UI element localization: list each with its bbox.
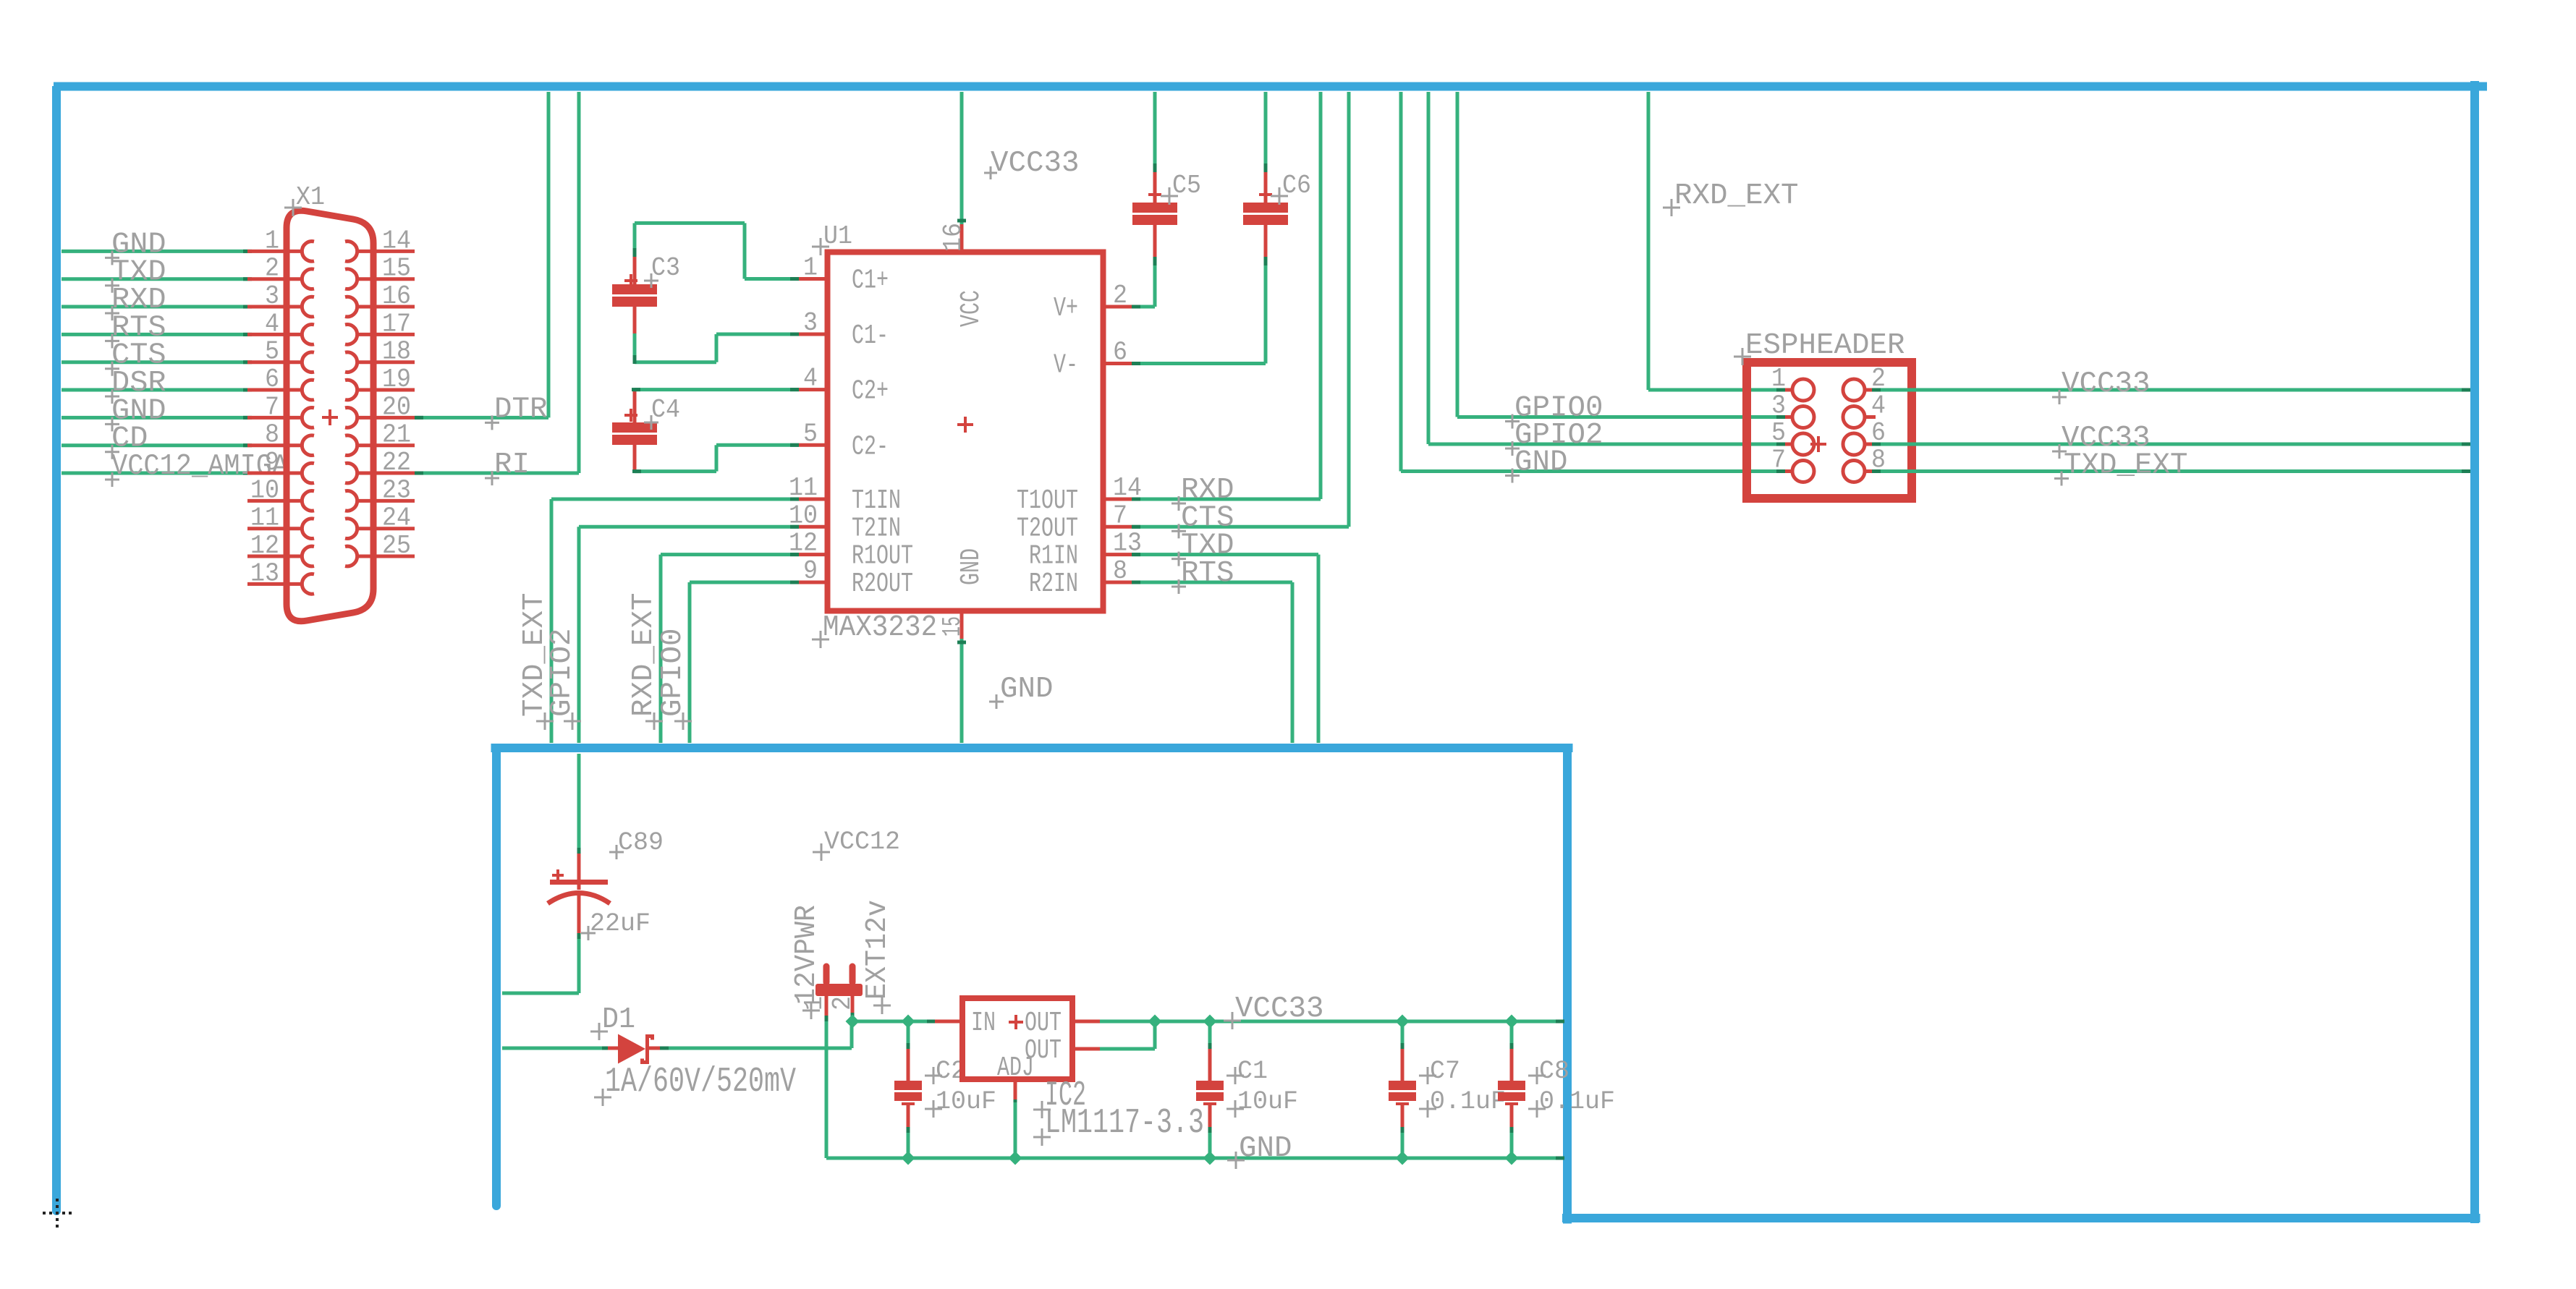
svg-text:23: 23 xyxy=(382,475,411,505)
U1 pin numbers xyxy=(789,223,1142,637)
wire GPIO0 from U1 R2OUT xyxy=(690,581,799,744)
svg-text:C3: C3 xyxy=(651,253,680,283)
wire VCC12 bus to C89 xyxy=(577,754,581,856)
svg-text:1: 1 xyxy=(265,226,279,255)
svg-text:24: 24 xyxy=(382,503,411,533)
svg-text:12: 12 xyxy=(250,531,279,561)
wire RTS xyxy=(1132,581,1292,744)
label LM1117-3.3 xyxy=(1033,1104,1204,1146)
svg-text:GND: GND xyxy=(1000,673,1054,706)
svg-text:5: 5 xyxy=(803,419,818,448)
wire C6 bottom to U1 pin6 V- xyxy=(1132,257,1268,365)
wire RXD_EXT from U1 R1OUT xyxy=(661,553,799,743)
label D1 xyxy=(590,1003,635,1040)
capacitor C5 xyxy=(1132,169,1177,259)
svg-text:GPIO0: GPIO0 xyxy=(1514,392,1603,425)
svg-text:11: 11 xyxy=(250,503,279,533)
net name GND xyxy=(105,228,166,265)
wire ADJ to GND rail xyxy=(1014,1099,1017,1158)
wire DSR X1 pin 6 xyxy=(62,388,252,392)
label IC2 xyxy=(1033,1076,1086,1118)
svg-text:T1IN: T1IN xyxy=(852,485,901,516)
net name GPIO0 (ESP) xyxy=(1505,392,1603,429)
svg-text:6: 6 xyxy=(265,365,279,394)
capacitor C6 xyxy=(1243,169,1288,259)
wire RXD X1 pin 3 xyxy=(62,305,252,309)
net name RXD xyxy=(1172,474,1234,511)
svg-text:25: 25 xyxy=(382,531,411,561)
svg-text:16: 16 xyxy=(939,223,968,252)
svg-text:VCC12: VCC12 xyxy=(824,828,900,856)
svg-text:20: 20 xyxy=(382,392,411,422)
svg-text:MAX3232: MAX3232 xyxy=(823,611,937,644)
wire CTS xyxy=(1132,92,1349,529)
wire C1 top xyxy=(1208,1021,1212,1052)
label C4 xyxy=(644,395,680,430)
net name CTS xyxy=(105,339,166,376)
svg-text:GPIO0: GPIO0 xyxy=(656,629,690,718)
wire C7 bottom xyxy=(1401,1127,1404,1158)
wire GND to ESP pin7 xyxy=(1401,92,1785,473)
net name GND rail xyxy=(1227,1132,1292,1169)
svg-text:GND: GND xyxy=(1239,1132,1292,1165)
label ESPHEADER xyxy=(1734,329,1905,365)
junction 12VPWR pin2 xyxy=(846,1013,860,1029)
bus inner box left segment xyxy=(492,748,501,1210)
wire U1 VCC pin16 xyxy=(957,92,966,224)
svg-text:R1OUT: R1OUT xyxy=(852,541,913,572)
svg-text:2: 2 xyxy=(1113,281,1127,310)
svg-text:3: 3 xyxy=(1771,391,1786,421)
svg-text:1: 1 xyxy=(800,996,829,1011)
net name TXD xyxy=(105,256,166,293)
wire VCC33 from ESP pin6 xyxy=(1872,443,2470,446)
junction C7 bottom xyxy=(1396,1152,1410,1165)
wire D1 cathode to 12VPWR junction xyxy=(660,1021,852,1050)
U1 internal pin names xyxy=(852,265,1078,600)
wire GPIO2 from U1 T2IN xyxy=(579,525,799,743)
svg-text:3: 3 xyxy=(803,308,818,338)
regulator IC2 body xyxy=(962,998,1072,1079)
wire C7 top xyxy=(1401,1021,1404,1052)
net name TXD_EXT (ESP pin8) xyxy=(2054,449,2188,486)
net name GND xyxy=(105,394,166,431)
connector 12VPWR pins xyxy=(815,966,863,1018)
svg-text:15: 15 xyxy=(938,616,967,637)
wire RTS X1 pin 4 xyxy=(62,333,252,336)
svg-text:GPIO2: GPIO2 xyxy=(546,629,579,718)
svg-text:6: 6 xyxy=(1113,338,1127,367)
wire C3 bottom to U1 pin3 C1- xyxy=(633,333,800,365)
svg-text:VCC33: VCC33 xyxy=(991,147,1080,180)
capacitor C7 xyxy=(1389,1049,1416,1130)
svg-text:22: 22 xyxy=(382,448,411,477)
svg-text:16: 16 xyxy=(382,281,411,311)
IC U1 MAX3232 body xyxy=(828,252,1103,611)
svg-text:18: 18 xyxy=(382,337,411,367)
svg-text:C7: C7 xyxy=(1430,1057,1460,1086)
IC2 internal pin names xyxy=(971,1008,1062,1084)
label C6 xyxy=(1271,171,1311,205)
svg-text:10uF: 10uF xyxy=(936,1087,996,1116)
wire C1 bottom xyxy=(1208,1127,1212,1158)
svg-text:14: 14 xyxy=(382,226,411,255)
svg-text:8: 8 xyxy=(265,420,279,450)
IC2 pin stub IN xyxy=(935,1020,962,1024)
svg-text:12VPWR: 12VPWR xyxy=(790,905,823,1005)
capacitor C2 xyxy=(894,1049,922,1130)
wire GND X1 pin 7 xyxy=(62,416,252,420)
capacitor C89 xyxy=(548,854,610,936)
wire C5 top to bus xyxy=(1153,92,1157,172)
X1 pin numbers xyxy=(250,226,411,588)
net name GND (ESP) xyxy=(1505,446,1568,483)
net name TXD_EXT vertical xyxy=(518,593,554,731)
svg-text:VCC33: VCC33 xyxy=(1235,992,1324,1026)
label C2 xyxy=(925,1057,966,1086)
wire RXD xyxy=(1132,92,1321,501)
svg-text:1A/60V/520mV: 1A/60V/520mV xyxy=(605,1063,796,1102)
label C1 xyxy=(1226,1057,1268,1086)
bus frame bottom-right segment xyxy=(1562,1214,2480,1222)
svg-text:ADJ: ADJ xyxy=(997,1052,1034,1084)
svg-text:2: 2 xyxy=(828,996,857,1011)
wire C8 top xyxy=(1510,1021,1514,1052)
wire RXD_EXT to ESP pin1 xyxy=(1648,92,1785,392)
svg-text:T1OUT: T1OUT xyxy=(1017,485,1078,516)
svg-text:5: 5 xyxy=(265,337,279,367)
wire C89 to bus left xyxy=(502,933,581,993)
net name GPIO2 (ESP) xyxy=(1505,419,1603,456)
svg-text:C4: C4 xyxy=(651,395,680,425)
label MAX3232 xyxy=(812,611,937,648)
svg-text:7: 7 xyxy=(1113,501,1127,530)
wire C3 top to U1 pin1 C1+ xyxy=(633,223,800,281)
bus frame top segment xyxy=(54,82,2487,91)
net name DSR xyxy=(105,367,166,404)
svg-text:C1-: C1- xyxy=(852,320,889,352)
net name VCC12_AMIGA xyxy=(105,450,289,487)
svg-text:C8: C8 xyxy=(1539,1057,1569,1086)
junction C1 top xyxy=(1203,1015,1217,1029)
net name VCC33 rail xyxy=(1224,992,1324,1029)
svg-text:C1+: C1+ xyxy=(852,265,889,297)
bus frame right segment xyxy=(2470,81,2479,1223)
svg-text:C1: C1 xyxy=(1237,1057,1268,1086)
svg-text:21: 21 xyxy=(382,420,411,450)
IC2 pin stubs OUT xyxy=(1072,1021,1100,1049)
junction C8 top xyxy=(1505,1015,1519,1029)
svg-text:0.1uF: 0.1uF xyxy=(1539,1087,1615,1116)
wire GPIO0 to ESP pin3 xyxy=(1457,92,1785,419)
net name VCC33 top xyxy=(984,147,1080,180)
svg-text:VCC: VCC xyxy=(956,290,987,327)
label C5 xyxy=(1161,171,1201,205)
svg-text:DTR: DTR xyxy=(494,393,548,426)
svg-text:1: 1 xyxy=(1771,364,1786,393)
junction ADJ bottom xyxy=(1009,1152,1022,1165)
IC2 pin stub ADJ xyxy=(1014,1079,1017,1102)
net name CD xyxy=(105,422,148,459)
svg-text:17: 17 xyxy=(382,309,411,339)
net name GPIO2 vertical xyxy=(546,629,581,731)
label 22uF xyxy=(581,909,651,940)
svg-text:R2IN: R2IN xyxy=(1029,569,1078,600)
wire TXD_EXT from U1 T1IN xyxy=(551,498,799,744)
svg-text:4: 4 xyxy=(1871,391,1886,421)
net name RTS xyxy=(105,311,166,348)
svg-text:V+: V+ xyxy=(1054,293,1078,324)
cursor crosshair xyxy=(43,1199,72,1228)
capacitor C8 xyxy=(1498,1049,1525,1130)
svg-text:R1IN: R1IN xyxy=(1029,541,1078,572)
net name VCC33 (ESP pin2) xyxy=(2052,367,2151,404)
junction C2 bottom xyxy=(902,1152,915,1165)
wire DTR xyxy=(415,92,548,420)
label C7 xyxy=(1419,1057,1460,1086)
wire VCC33 from ESP pin2 xyxy=(1872,388,2470,392)
svg-text:T2OUT: T2OUT xyxy=(1017,513,1078,544)
net name RI xyxy=(485,448,530,485)
svg-text:19: 19 xyxy=(382,365,411,394)
12VPWR pin number 2 xyxy=(828,996,857,1011)
capacitor C3 xyxy=(612,251,657,333)
wire TXD xyxy=(1132,553,1318,743)
label C3 xyxy=(644,253,680,288)
svg-text:EXT12v: EXT12v xyxy=(861,900,894,1000)
wire CTS X1 pin 5 xyxy=(62,360,252,364)
bus frame left segment xyxy=(52,86,61,1215)
wire RI xyxy=(415,92,579,475)
svg-text:IN: IN xyxy=(971,1008,996,1039)
svg-text:C2-: C2- xyxy=(852,431,889,462)
connector ESPHEADER body xyxy=(1747,362,1912,498)
wire GPIO2 to ESP pin5 xyxy=(1428,92,1785,446)
svg-text:OUT: OUT xyxy=(1025,1008,1062,1039)
svg-text:15: 15 xyxy=(382,254,411,284)
capacitor C4 xyxy=(612,390,657,472)
wire C2 bottom xyxy=(907,1127,910,1158)
net name DTR xyxy=(485,393,548,430)
wire CD X1 pin 8 xyxy=(62,443,252,447)
12VPWR pin number 1 xyxy=(800,996,829,1011)
svg-text:ESPHEADER: ESPHEADER xyxy=(1745,329,1905,362)
svg-text:1: 1 xyxy=(803,253,818,283)
net name TXD xyxy=(1172,529,1234,566)
junction C1 bottom xyxy=(1203,1152,1217,1165)
svg-text:GND: GND xyxy=(956,548,987,585)
wire C4 bottom to U1 pin5 C2- xyxy=(632,443,799,473)
svg-text:10uF: 10uF xyxy=(1237,1087,1298,1116)
junction C7 top xyxy=(1396,1015,1410,1029)
wire C6 top to bus xyxy=(1264,92,1268,172)
svg-text:RXD_EXT: RXD_EXT xyxy=(1674,179,1799,213)
wire 12VPWR pin1 to GND rail xyxy=(825,1016,829,1158)
svg-text:3: 3 xyxy=(265,281,279,311)
svg-text:4: 4 xyxy=(265,309,279,339)
net name GND below U1 xyxy=(989,673,1054,709)
svg-text:RI: RI xyxy=(494,448,530,482)
svg-text:10: 10 xyxy=(250,475,279,505)
svg-text:8: 8 xyxy=(1113,556,1127,586)
bus inner box right segment xyxy=(1563,748,1572,1224)
wire GND X1 pin 1 xyxy=(62,250,252,253)
label 10uF (C2) xyxy=(925,1087,996,1118)
net name VCC12 xyxy=(813,828,900,861)
junction OUT2 xyxy=(1148,1015,1162,1029)
svg-text:9: 9 xyxy=(265,448,279,477)
svg-text:V-: V- xyxy=(1054,350,1078,381)
net name RXD_EXT top xyxy=(1663,179,1799,216)
svg-text:C2+: C2+ xyxy=(852,376,889,407)
label EXT12v xyxy=(861,900,894,1014)
wire C4 top to U1 pin4 C2+ xyxy=(632,388,799,391)
wire VCC33 rail xyxy=(1100,1020,1564,1024)
net name VCC33 (ESP pin6) xyxy=(2052,422,2151,459)
net name CTS xyxy=(1172,501,1234,538)
net name RXD xyxy=(105,284,166,320)
label X1 xyxy=(284,182,325,216)
label 0.1uF (C7) xyxy=(1419,1087,1506,1118)
svg-text:7: 7 xyxy=(265,392,279,422)
svg-text:9: 9 xyxy=(803,556,818,586)
U1 pin stubs xyxy=(799,224,1132,639)
svg-text:13: 13 xyxy=(250,558,279,588)
diode D1 xyxy=(608,1034,661,1065)
wire C2 top xyxy=(907,1021,910,1052)
bus inner box top segment xyxy=(491,744,1573,752)
label 10uF (C1) xyxy=(1226,1087,1298,1118)
svg-text:22uF: 22uF xyxy=(590,909,651,938)
svg-text:R2OUT: R2OUT xyxy=(852,569,913,600)
svg-text:VCC33: VCC33 xyxy=(2062,367,2151,401)
svg-text:0.1uF: 0.1uF xyxy=(1430,1087,1506,1116)
svg-text:2: 2 xyxy=(265,254,279,284)
net name RXD_EXT vertical xyxy=(627,593,663,731)
label C89 xyxy=(609,828,664,859)
svg-text:RTS: RTS xyxy=(1181,557,1234,590)
wire GND rail xyxy=(826,1157,1564,1160)
svg-text:C89: C89 xyxy=(618,828,664,857)
wire bus to D1 anode xyxy=(502,1047,611,1050)
svg-text:7: 7 xyxy=(1771,446,1786,475)
net name GPIO0 vertical xyxy=(656,629,692,731)
ESPHEADER pin numbers xyxy=(1771,364,1886,475)
wire C8 bottom xyxy=(1510,1127,1514,1158)
label U1 xyxy=(812,221,852,255)
label 0.1uF (C8) xyxy=(1528,1087,1615,1118)
label 1A/60V/520mV xyxy=(594,1063,796,1106)
wire TXD_EXT from ESP pin8 xyxy=(1872,469,2470,473)
capacitor C1 xyxy=(1196,1049,1224,1130)
wire U1 GND pin15 xyxy=(957,639,966,743)
wire VCC12_AMIGA X1 pin 9 xyxy=(62,472,252,475)
svg-text:5: 5 xyxy=(1771,418,1786,448)
connector X1 body and pins xyxy=(247,210,415,621)
svg-text:4: 4 xyxy=(803,364,818,393)
label C8 xyxy=(1528,1057,1569,1086)
label 12VPWR xyxy=(790,905,823,1019)
wire C5 bottom to U1 pin2 V+ xyxy=(1132,257,1157,309)
junction C2 top xyxy=(902,1015,915,1029)
svg-text:LM1117-3.3: LM1117-3.3 xyxy=(1045,1104,1204,1143)
svg-text:T2IN: T2IN xyxy=(852,513,901,544)
svg-text:TXD_EXT: TXD_EXT xyxy=(2064,449,2188,482)
wire VCC12 to IC2 IN xyxy=(852,1020,936,1024)
junction C8 bottom xyxy=(1505,1152,1519,1165)
net name RTS xyxy=(1172,557,1234,594)
wire TXD X1 pin 2 xyxy=(62,277,252,281)
wire OUT2 to VCC33 rail xyxy=(1100,1021,1155,1051)
